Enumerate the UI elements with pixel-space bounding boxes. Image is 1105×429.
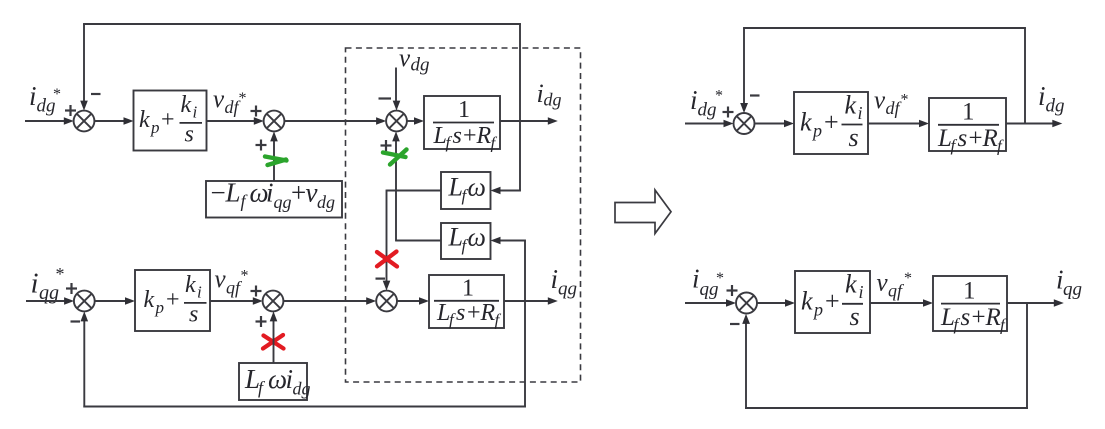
- wire v_dg down into S3: [395, 68, 397, 103]
- node label i_qg (right output): [1056, 265, 1082, 301]
- wire q feedback down and across bottom: [83, 300, 526, 407]
- svg-text:k: k: [845, 270, 857, 299]
- svg-text:p: p: [150, 118, 160, 137]
- wire S8 to PI block q right: [757, 302, 786, 304]
- svg-text:dg: dg: [1046, 96, 1065, 117]
- node label i_dg* (right input): [690, 85, 723, 121]
- svg-text:s: s: [185, 122, 194, 148]
- wire compensation block B2 up into S2: [273, 140, 275, 181]
- wire S2 to S3: [284, 120, 377, 122]
- block plant d-axis right 1/(Lf s+Rf): [929, 98, 1006, 156]
- svg-text:*: *: [239, 90, 247, 107]
- summing junction S7: [734, 113, 755, 134]
- svg-text:qg: qg: [558, 279, 577, 300]
- svg-text:dg: dg: [698, 100, 717, 121]
- block plant q-axis 1/(Lf s+Rf): [429, 275, 504, 330]
- svg-text:k: k: [800, 108, 812, 137]
- svg-text:i: i: [859, 282, 864, 302]
- svg-text:p: p: [811, 121, 822, 141]
- node label i_dg* (left input): [29, 81, 61, 117]
- wire PI q right to plant q right: [870, 302, 924, 304]
- plus sign at S3 lower: [381, 140, 392, 151]
- svg-text:+: +: [825, 287, 840, 316]
- svg-text:dg: dg: [544, 90, 562, 110]
- svg-text:i: i: [690, 85, 698, 115]
- node label i_qg* (left input): [31, 264, 65, 304]
- plus sign at S7: [723, 107, 734, 118]
- summing junction S4: [74, 291, 95, 312]
- svg-text:dg: dg: [317, 192, 335, 212]
- svg-text:v: v: [213, 86, 225, 113]
- wire feedback right vertical + branch down to Lf-omega 1: [498, 24, 521, 191]
- minus sign at S7: [750, 94, 760, 96]
- svg-text:i: i: [858, 103, 863, 123]
- svg-text:*: *: [901, 92, 909, 109]
- svg-text:s: s: [189, 302, 198, 328]
- svg-text:−: −: [211, 178, 226, 208]
- block plant q-axis right 1/(Lf s+Rf): [933, 276, 1007, 335]
- green cross-out X over S2 input: [265, 157, 287, 166]
- svg-text:+: +: [291, 178, 306, 208]
- node label i_qg (left output): [551, 264, 578, 300]
- svg-text:k: k: [144, 287, 155, 313]
- svg-text:i: i: [266, 178, 274, 208]
- svg-text:i: i: [551, 264, 559, 294]
- minus sign at S8: [730, 323, 740, 325]
- svg-text:k: k: [181, 92, 192, 118]
- summing junction S6: [376, 291, 397, 312]
- svg-text:v: v: [399, 45, 411, 72]
- svg-text:s: s: [456, 300, 465, 326]
- wire feedback right-top vertical into S7: [743, 28, 745, 105]
- wire S4 to PI block q: [95, 300, 126, 302]
- svg-text:s: s: [849, 123, 859, 152]
- wire feedback top horizontal: [83, 23, 521, 25]
- plus sign upper at S5: [251, 286, 262, 297]
- wire S7 to PI block right: [755, 123, 786, 125]
- svg-text:ω: ω: [268, 364, 287, 394]
- svg-text:R: R: [982, 125, 998, 152]
- svg-text:dg: dg: [411, 55, 430, 76]
- svg-text:p: p: [155, 298, 165, 317]
- plus sign lower at S5: [256, 316, 267, 327]
- wire plant d output: [500, 120, 549, 122]
- wire PI q to S5: [210, 300, 254, 302]
- plus sign at S1: [65, 105, 76, 116]
- svg-text:1: 1: [963, 278, 976, 305]
- svg-text:v: v: [877, 270, 889, 297]
- svg-text:i: i: [692, 264, 700, 294]
- svg-text:v: v: [874, 87, 886, 114]
- svg-text:s: s: [958, 125, 968, 152]
- svg-text:+: +: [824, 108, 839, 137]
- svg-text:s: s: [453, 123, 462, 149]
- svg-text:*: *: [716, 270, 724, 287]
- svg-text:k: k: [185, 272, 196, 298]
- svg-text:R: R: [480, 300, 496, 326]
- wire input q-axis left: [26, 300, 65, 302]
- node label v_df*: [213, 86, 247, 117]
- summing junction S3: [386, 111, 407, 132]
- svg-text:i: i: [193, 103, 198, 122]
- svg-text:qf: qf: [888, 281, 905, 301]
- svg-text:+: +: [467, 300, 481, 326]
- plus sign lower at S2: [256, 140, 267, 151]
- svg-text:qg: qg: [1063, 279, 1082, 300]
- svg-text:*: *: [53, 86, 61, 103]
- svg-text:i: i: [29, 81, 37, 111]
- svg-text:1: 1: [458, 97, 470, 123]
- svg-text:dg: dg: [293, 379, 311, 399]
- svg-text:+: +: [166, 287, 180, 313]
- wire feedback right-top branch vertical: [1024, 28, 1026, 124]
- block PI controller d-axis right (kp + ki/s): [794, 91, 868, 155]
- summing junction S1: [74, 111, 95, 132]
- svg-text:*: *: [56, 264, 65, 284]
- svg-text:k: k: [139, 107, 150, 133]
- summing junction S8: [736, 293, 757, 314]
- node label v_qf*: [215, 266, 249, 298]
- svg-text:R: R: [985, 304, 1001, 331]
- wire S3 to plant block d: [407, 120, 415, 122]
- summing junction S5: [263, 291, 284, 312]
- svg-text:i: i: [1038, 81, 1046, 111]
- minus sign at S1: [91, 93, 101, 95]
- wire Lf-omega 2 output up into S3: [396, 140, 441, 242]
- wire q right feedback bottom loop: [745, 302, 1028, 409]
- svg-text:ω: ω: [468, 223, 486, 252]
- svg-text:*: *: [241, 268, 249, 285]
- wire S5 to S6: [283, 300, 367, 302]
- svg-text:1: 1: [962, 99, 975, 126]
- svg-text:s: s: [850, 302, 860, 331]
- svg-text:*: *: [715, 88, 723, 105]
- green cross-out X over S3 input: [383, 150, 407, 165]
- wire Lf-omega 1 output down to S6: [387, 190, 442, 282]
- big hollow implication arrow: [615, 190, 671, 234]
- summing junction S2: [264, 111, 285, 132]
- wire feedback right-top horizontal: [743, 27, 1026, 29]
- wire plant d right output: [1006, 123, 1053, 125]
- dashed plant boundary box: [346, 48, 581, 382]
- node label i_qg* (right input): [692, 264, 724, 301]
- svg-text:R: R: [476, 123, 492, 149]
- svg-text:1: 1: [462, 276, 474, 302]
- block PI controller d-axis (kp + ki/s): [134, 91, 207, 151]
- svg-text:+: +: [463, 123, 477, 149]
- svg-text:v: v: [215, 266, 227, 293]
- svg-text:s: s: [961, 304, 971, 331]
- svg-text:+: +: [972, 304, 986, 331]
- node label v_qf* right: [877, 270, 913, 301]
- node label i_dg (right output): [1038, 81, 1065, 117]
- svg-text:qg: qg: [274, 192, 292, 212]
- block Lf-omega 1: [441, 172, 491, 209]
- wire plant q output: [504, 300, 549, 302]
- svg-text:v: v: [306, 178, 318, 208]
- plus sign upper at S2: [251, 106, 262, 117]
- svg-text:ω: ω: [468, 173, 486, 202]
- wire PI right to plant right: [868, 123, 920, 125]
- block PI controller q-axis right (kp + ki/s): [795, 270, 870, 334]
- svg-text:*: *: [904, 270, 912, 287]
- svg-text:k: k: [845, 91, 857, 120]
- wire input d-axis right: [685, 123, 724, 125]
- node label v_df* right: [874, 87, 909, 118]
- block Lf-omega 2: [441, 223, 491, 260]
- wire input q-axis right: [685, 302, 727, 304]
- wire PI to S2: [207, 120, 255, 122]
- node label i_dg (left output): [537, 79, 562, 110]
- block compensation -Lf w iqg + vdg: [206, 178, 342, 218]
- svg-text:+: +: [969, 125, 983, 152]
- wire feedback top-left vertical into S1: [83, 24, 85, 102]
- node label v_dg: [399, 45, 430, 76]
- plus sign at S8: [727, 285, 738, 296]
- wire branch from q output up into Lf-omega 2: [498, 241, 526, 302]
- svg-text:k: k: [801, 287, 813, 316]
- wire input d-axis left: [25, 120, 65, 122]
- svg-text:i: i: [197, 283, 202, 302]
- block PI controller q-axis (kp + ki/s): [135, 270, 210, 331]
- block compensation Lf w idg: [239, 363, 311, 400]
- wire plant q right output: [1007, 302, 1055, 304]
- minus sign at S3: [379, 97, 392, 99]
- minus sign at S6: [376, 278, 386, 280]
- plus sign at S4: [66, 283, 77, 294]
- svg-text:+: +: [161, 107, 175, 133]
- block plant d-axis 1/(Lf s+Rf): [424, 96, 500, 153]
- wire S1 to PI block: [94, 120, 124, 122]
- minus sign at S4: [71, 320, 81, 322]
- svg-text:L: L: [225, 178, 241, 208]
- wire S6 to plant block q: [397, 300, 420, 302]
- svg-text:p: p: [812, 300, 823, 320]
- svg-text:i: i: [31, 268, 39, 300]
- wire compensation block B5 up into S5: [273, 320, 275, 363]
- red cross-out X over S6 input: [377, 252, 397, 267]
- red cross-out X over S5 input: [263, 335, 284, 349]
